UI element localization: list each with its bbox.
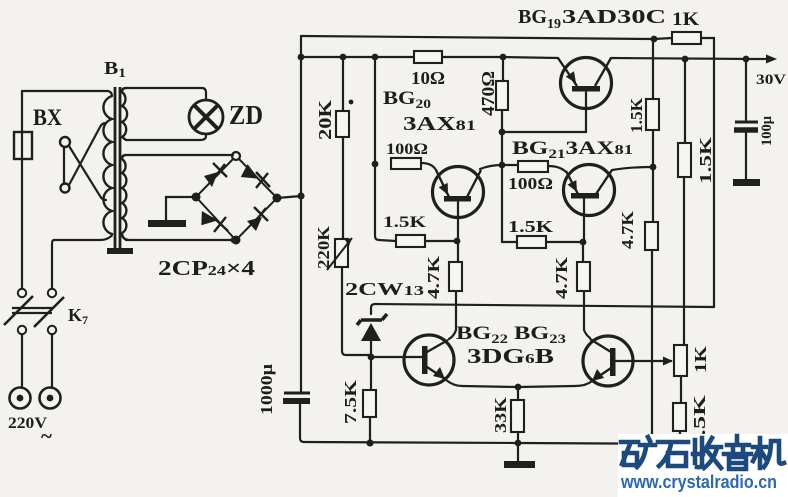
wire: 100u cap column: [745, 59, 747, 180]
watermark glyph ji: [753, 438, 784, 468]
transformer secondary 2 winding: [122, 155, 128, 240]
wire: zener anode to base node: [370, 341, 372, 357]
capacitor 1000u: [283, 393, 310, 401]
resistor 1K top: [672, 32, 701, 44]
wire: switch to 220V terminal right: [51, 334, 53, 388]
svg-text:1K: 1K: [672, 9, 699, 30]
svg-text:100Ω: 100Ω: [386, 141, 428, 158]
transistor BG23: [583, 336, 633, 386]
wire: top rail: [301, 36, 672, 39]
wire: output rail y57: [301, 56, 414, 58]
output arrow 30V: [757, 58, 772, 60]
wire: secondary1 top to lamp: [126, 88, 206, 100]
lamp ZD: [189, 100, 223, 134]
tap selector circle lower: [61, 184, 70, 193]
wire: switch to 220V terminal left: [21, 334, 23, 388]
resistor 4.7K-2: [577, 262, 590, 291]
bridge vertex dots: [192, 193, 201, 202]
wire: base node to BG22 base: [371, 356, 422, 358]
watermark glyph yin: [724, 436, 751, 469]
wire: BG20 collector to node: [480, 165, 502, 169]
svg-text:4.7K: 4.7K: [552, 256, 571, 299]
resistor 220K: [335, 239, 348, 267]
bridge diode UR: [241, 163, 262, 180]
transformer primary winding: [103, 96, 112, 237]
svg-text:ZD: ZD: [229, 100, 263, 130]
wire: 1.5K-4 / pot / .5K column: [680, 59, 685, 443]
wire: BG23 base to pot wiper: [615, 360, 662, 362]
watermark white box: [618, 434, 788, 497]
wire: BG22 emitter to 33K node: [444, 378, 518, 387]
bridge diamond sides: [196, 159, 277, 237]
svg-text:33K: 33K: [491, 396, 510, 433]
wire: 33K node to BG23 emitter: [518, 381, 592, 387]
wire: secondary2 top to bridge: [126, 154, 233, 156]
wire: 33K column: [517, 387, 519, 443]
ground at 100u: [733, 179, 760, 186]
wire: 470ohm column: [502, 57, 503, 165]
svg-text:220K: 220K: [314, 225, 333, 269]
wire: tap selector cross line lower: [69, 146, 106, 200]
switch K7 terminal circles top: [18, 289, 26, 297]
svg-text:100μ: 100μ: [759, 116, 775, 146]
capacitor 100u: [734, 122, 758, 130]
wire: base rail BG19: [502, 131, 586, 133]
ground at bridge: [148, 220, 186, 227]
wire: bridge right vertex to main bus: [277, 196, 301, 198]
tap selector circle upper: [60, 137, 70, 147]
svg-text:10Ω: 10Ω: [411, 68, 445, 88]
transistor BG22: [404, 335, 454, 385]
resistor 33K: [511, 400, 524, 432]
svg-text:~: ~: [41, 424, 52, 448]
resistor 7.5K: [363, 390, 376, 417]
potentiometer 1K body: [674, 345, 687, 376]
svg-text:1.5K: 1.5K: [383, 214, 427, 231]
wire: 100ohm-2 right to BG21 emitter: [548, 166, 566, 172]
bridge diode LR: [247, 217, 262, 231]
wire: BG20 base lead to 4.7K-1: [449, 202, 458, 339]
terminal 220V right dot: [47, 395, 54, 402]
ground at 33K: [517, 443, 519, 462]
switch K7 blades: [4, 296, 64, 327]
svg-text:30V: 30V: [756, 72, 786, 88]
svg-text:1.5K: 1.5K: [696, 136, 715, 184]
resistor 4.7K-1: [449, 262, 462, 291]
resistor 20K: [336, 111, 349, 137]
wire: 1.5K-1 to BG20 base node: [425, 240, 457, 242]
terminal 220V left dot: [17, 395, 24, 402]
transformer core bottom bar: [107, 248, 133, 254]
wire: secondary2 bottom to bridge: [126, 239, 236, 241]
svg-text:4.7K: 4.7K: [424, 255, 443, 299]
switch K7 terminal circles bottom: [18, 326, 26, 334]
transistor BG20: [433, 167, 484, 218]
bridge diode LL: [199, 209, 218, 226]
resistor .5K: [673, 403, 686, 431]
svg-text:19: 19: [547, 17, 561, 32]
transistor BG19: [558, 58, 612, 109]
transformer core: [115, 87, 120, 250]
svg-text:BX: BX: [33, 105, 62, 130]
svg-text:www.crystalradio.cn: www.crystalradio.cn: [620, 472, 777, 492]
resistor 1.5K-2: [517, 236, 546, 248]
wire: BG19 base lead: [585, 92, 587, 132]
wire: 1.5K-2 row left riser: [502, 165, 517, 242]
bridge diode UL: [204, 172, 218, 187]
bridge top vertex: [232, 152, 240, 160]
wire: reference rail zener to right riser: [371, 304, 714, 314]
terminal 220V left: [10, 388, 31, 409]
fuse BX: [14, 132, 32, 159]
watermark glyph kuang: [621, 437, 655, 467]
wire: main left bus vertical: [300, 36, 302, 392]
svg-text:100Ω: 100Ω: [508, 174, 553, 193]
wire: bottom rail: [304, 442, 703, 444]
wire: 100ohm-1 to BG20 emitter: [421, 163, 436, 170]
wire: bus below 1000u cap to bottom rail: [300, 404, 304, 442]
wire: 1.5K-2 to BG21 base node: [546, 241, 582, 243]
watermark glyph shou: [693, 438, 721, 468]
wire: output rail right of BG19: [611, 58, 757, 59]
resistor 470ohm: [496, 81, 508, 110]
wire: BG21 base node to 4.7K-2 to BG23 collector: [583, 242, 590, 338]
terminal 220V right: [40, 388, 61, 409]
transistor BG21: [564, 165, 615, 216]
resistor 1.5K-1: [396, 235, 425, 247]
wire: BG21 collector to 1.5K/4.7K node: [612, 167, 653, 170]
wire: tap selector vertical link: [63, 147, 65, 184]
zener 2CW13: [361, 323, 381, 341]
svg-text:.5K: .5K: [690, 394, 709, 436]
resistor 4.7K-3: [645, 222, 658, 250]
watermark glyph shi: [658, 442, 688, 466]
switch K7 link bar: [12, 308, 52, 313]
wire: 7.5K column: [370, 357, 371, 442]
wire: tap selector cross line upper: [69, 123, 106, 185]
resistor 1.5K-3: [646, 99, 659, 130]
potentiometer 1K wiper arrow: [662, 360, 672, 362]
svg-text:1.5K: 1.5K: [508, 217, 554, 236]
svg-text:1.5K: 1.5K: [627, 97, 646, 133]
svg-text:3DG6B: 3DG6B: [467, 344, 554, 368]
wire: bridge left vertex to ground: [166, 197, 196, 221]
wire: output rail middle: [442, 57, 558, 58]
wire: mains left vertical through fuse: [21, 91, 23, 289]
wire: 20K/220K column: [342, 57, 371, 355]
svg-text:20K: 20K: [315, 100, 335, 140]
resistor 10ohm: [414, 51, 442, 63]
resistor 1.5K-4: [678, 143, 691, 177]
svg-text:470Ω: 470Ω: [478, 71, 498, 116]
svg-text:4.7K: 4.7K: [618, 210, 637, 249]
svg-text:BG: BG: [518, 6, 547, 28]
svg-text:1K: 1K: [691, 345, 710, 373]
potentiometer 220K arrow: [327, 238, 352, 270]
wire: 1.5K-3 column x653: [652, 39, 653, 436]
wire: secondary1 bottom to lamp: [126, 134, 206, 140]
junction node dots: [298, 54, 305, 61]
svg-text:7.5K: 7.5K: [341, 379, 360, 424]
wire: BG21 base lead: [583, 199, 585, 242]
svg-text:2CP24×4: 2CP24×4: [158, 256, 256, 280]
wire: 100ohm column: [375, 57, 396, 241]
wire: top of primary: [22, 91, 112, 96]
svg-text:1000μ: 1000μ: [257, 364, 276, 415]
wire: primary bottom to switch column: [52, 237, 110, 289]
svg-text:3AD30C: 3AD30C: [562, 6, 666, 28]
wire: top rail right of 1K to right drop: [701, 38, 714, 307]
resistor 100ohm left: [391, 158, 421, 169]
transformer secondary 1 winding: [122, 88, 127, 140]
resistor 100ohm right: [518, 161, 548, 172]
